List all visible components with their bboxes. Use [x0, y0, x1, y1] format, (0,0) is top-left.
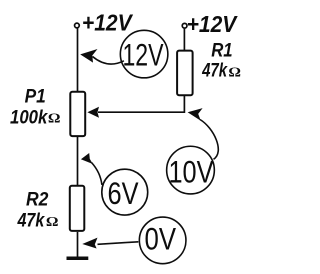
callout arrow 0V to R2/ground wire: [98, 242, 139, 245]
callout 0V circle: [139, 217, 186, 264]
P1 wiper arrow: [87, 107, 99, 118]
callout arrow 6V to P1/R2 junction wire: [92, 163, 102, 185]
terminal node +12V (left): [75, 23, 80, 28]
svg-text:47k: 47k: [17, 211, 46, 232]
wire: left +12V terminal down to P1 top: [77, 28, 79, 91]
svg-text:10V: 10V: [169, 154, 214, 190]
callout 6V circle: [102, 169, 148, 215]
svg-text:+12V: +12V: [187, 11, 239, 37]
potentiometer P1 body: [70, 92, 85, 136]
svg-text:47k: 47k: [201, 61, 228, 82]
svg-text:6V: 6V: [108, 175, 139, 211]
svg-text:P1: P1: [25, 86, 46, 107]
svg-text:R1: R1: [211, 40, 232, 61]
wire: R1 bottom down and left to P1 wiper: [98, 95, 184, 112]
resistor R1 body: [177, 51, 193, 96]
callout arrow 12V to top node wire: [93, 57, 124, 65]
svg-text:R2: R2: [26, 189, 49, 210]
callout 10V circle: [167, 146, 215, 194]
resistor R2 body: [70, 186, 85, 231]
callout arrow 10V to wiper wire: [200, 120, 218, 160]
wire: R2 bottom to ground: [77, 232, 79, 258]
svg-text:0V: 0V: [145, 221, 177, 257]
svg-text:100k: 100k: [10, 107, 49, 128]
terminal node +12V (right): [182, 23, 187, 28]
svg-text:Ω: Ω: [48, 111, 61, 126]
svg-text:12V: 12V: [123, 36, 164, 72]
callout 12V circle: [120, 30, 168, 78]
svg-text:Ω: Ω: [46, 215, 59, 230]
svg-text:Ω: Ω: [228, 66, 241, 81]
wire: P1 bottom to R2 top: [77, 137, 79, 185]
ground: [67, 257, 89, 261]
svg-text:+12V: +12V: [82, 10, 134, 36]
wire: right +12V terminal down to R1 top: [183, 29, 185, 51]
